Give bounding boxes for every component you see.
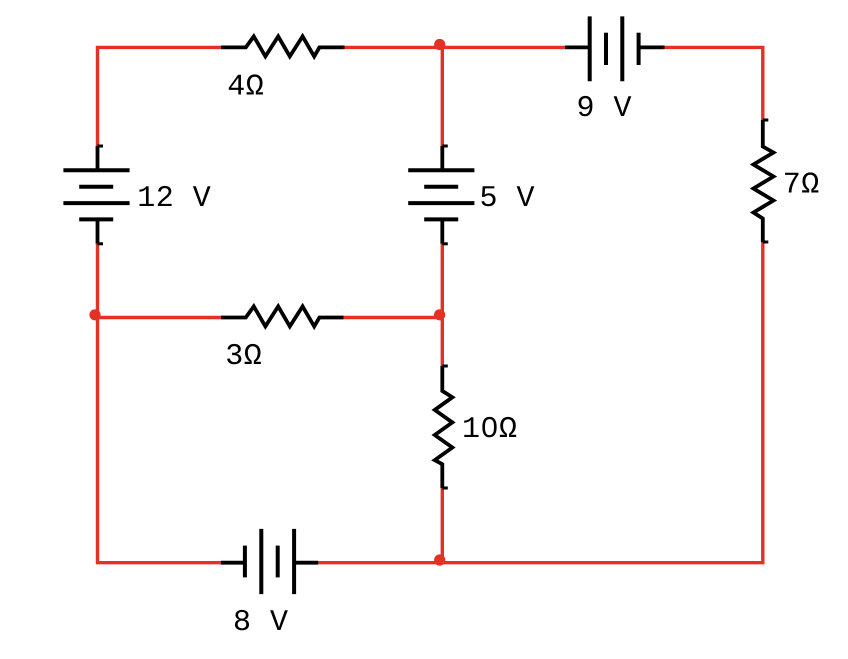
wire: left rail top + top wire left segment (98, 47, 222, 146)
wire: middle horizontal wire right segment (344, 316, 445, 319)
node: left middle junction dot (89, 309, 100, 320)
wire: middle rail lower (10-ohm resistor to bottom node) (441, 488, 444, 563)
wire: middle rail between 5V battery and 10-ohm resistor (441, 244, 444, 366)
node: middle junction dot (434, 309, 445, 320)
resistor R1 (4 ohm, top horizontal) (221, 36, 345, 56)
label: R3 value 3 ohm (227, 344, 261, 364)
battery V2 (12 V, left vertical) (63, 146, 129, 244)
wire: top wire right segment + right rail upper (665, 47, 763, 120)
battery V3 (5 V, middle vertical) (408, 146, 474, 244)
battery V4 (8 V, bottom horizontal) (221, 529, 318, 594)
label: R1 value 4 ohm (229, 74, 263, 94)
wire: middle horizontal wire left segment (98, 316, 222, 319)
wire: middle rail upper (top node to 5V battery) (441, 46, 444, 147)
wire: top wire middle segment (345, 46, 566, 49)
resistor R2 (7 ohm, right vertical) (753, 120, 773, 242)
node: bottom junction dot (434, 554, 445, 565)
wire: bottom wire right segment + right rail lower (318, 242, 763, 563)
resistor R4 (10 ohm, middle vertical) (435, 366, 453, 488)
wire: left rail lower + bottom wire left segment (98, 244, 222, 563)
resistor R3 (3 ohm, middle horizontal) (221, 306, 344, 326)
label: V2 value 12 V (139, 186, 210, 206)
battery V1 (9 V, top horizontal) (565, 16, 665, 81)
label: V3 value 5 V (481, 186, 534, 206)
label: V1 value 9 V (579, 96, 632, 116)
label: R4 value 10 ohm (464, 417, 516, 437)
label: R2 value 7 ohm (785, 172, 818, 192)
node: top junction dot (434, 39, 445, 50)
label: V4 value 8 V (235, 610, 288, 630)
